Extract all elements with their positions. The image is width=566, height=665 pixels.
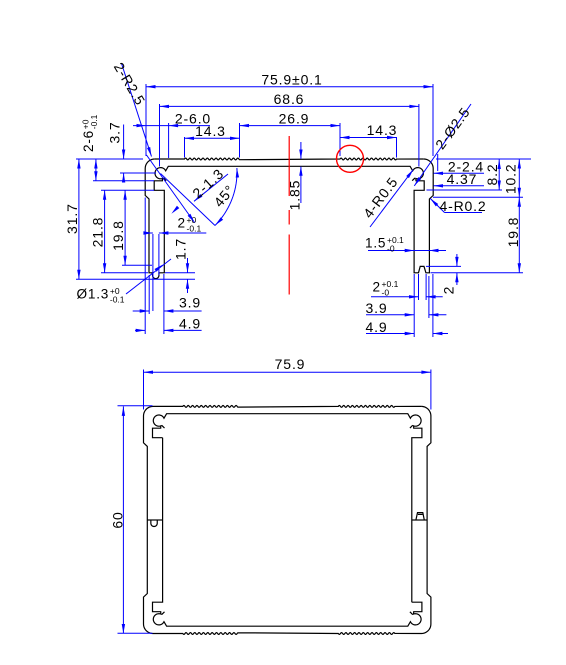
- svg-text:-0.1: -0.1: [110, 294, 125, 304]
- svg-text:4.9: 4.9: [179, 316, 201, 332]
- svg-text:-0.1: -0.1: [89, 114, 99, 129]
- svg-text:2-6: 2-6: [81, 130, 96, 152]
- svg-text:4.9: 4.9: [365, 319, 387, 335]
- svg-text:2: 2: [373, 280, 381, 295]
- svg-text:-0: -0: [387, 243, 395, 253]
- svg-text:Ø1.3: Ø1.3: [77, 287, 110, 302]
- svg-text:19.8: 19.8: [110, 220, 126, 251]
- svg-text:-0.1: -0.1: [187, 223, 202, 233]
- svg-text:19.8: 19.8: [505, 217, 521, 248]
- svg-text:3.9: 3.9: [365, 300, 387, 316]
- svg-text:14.3: 14.3: [195, 123, 226, 139]
- svg-text:60: 60: [109, 511, 125, 528]
- svg-text:4-R0.2: 4-R0.2: [439, 198, 486, 214]
- svg-text:1.5: 1.5: [365, 236, 386, 251]
- svg-text:68.6: 68.6: [274, 91, 305, 107]
- svg-text:-0: -0: [382, 287, 390, 297]
- svg-text:10.2: 10.2: [503, 163, 519, 194]
- svg-text:3.7: 3.7: [107, 121, 123, 143]
- svg-text:21.8: 21.8: [90, 217, 106, 248]
- svg-text:14.3: 14.3: [367, 122, 398, 138]
- svg-text:3.9: 3.9: [179, 295, 201, 311]
- svg-text:75.9: 75.9: [275, 356, 306, 372]
- svg-text:31.7: 31.7: [64, 203, 80, 234]
- svg-text:2: 2: [441, 286, 457, 295]
- svg-text:2: 2: [178, 216, 186, 231]
- svg-text:26.9: 26.9: [279, 110, 310, 126]
- svg-text:75.9±0.1: 75.9±0.1: [261, 71, 322, 87]
- svg-text:1.7: 1.7: [173, 238, 189, 260]
- svg-text:4.37: 4.37: [447, 171, 478, 187]
- svg-text:8.2: 8.2: [484, 163, 500, 185]
